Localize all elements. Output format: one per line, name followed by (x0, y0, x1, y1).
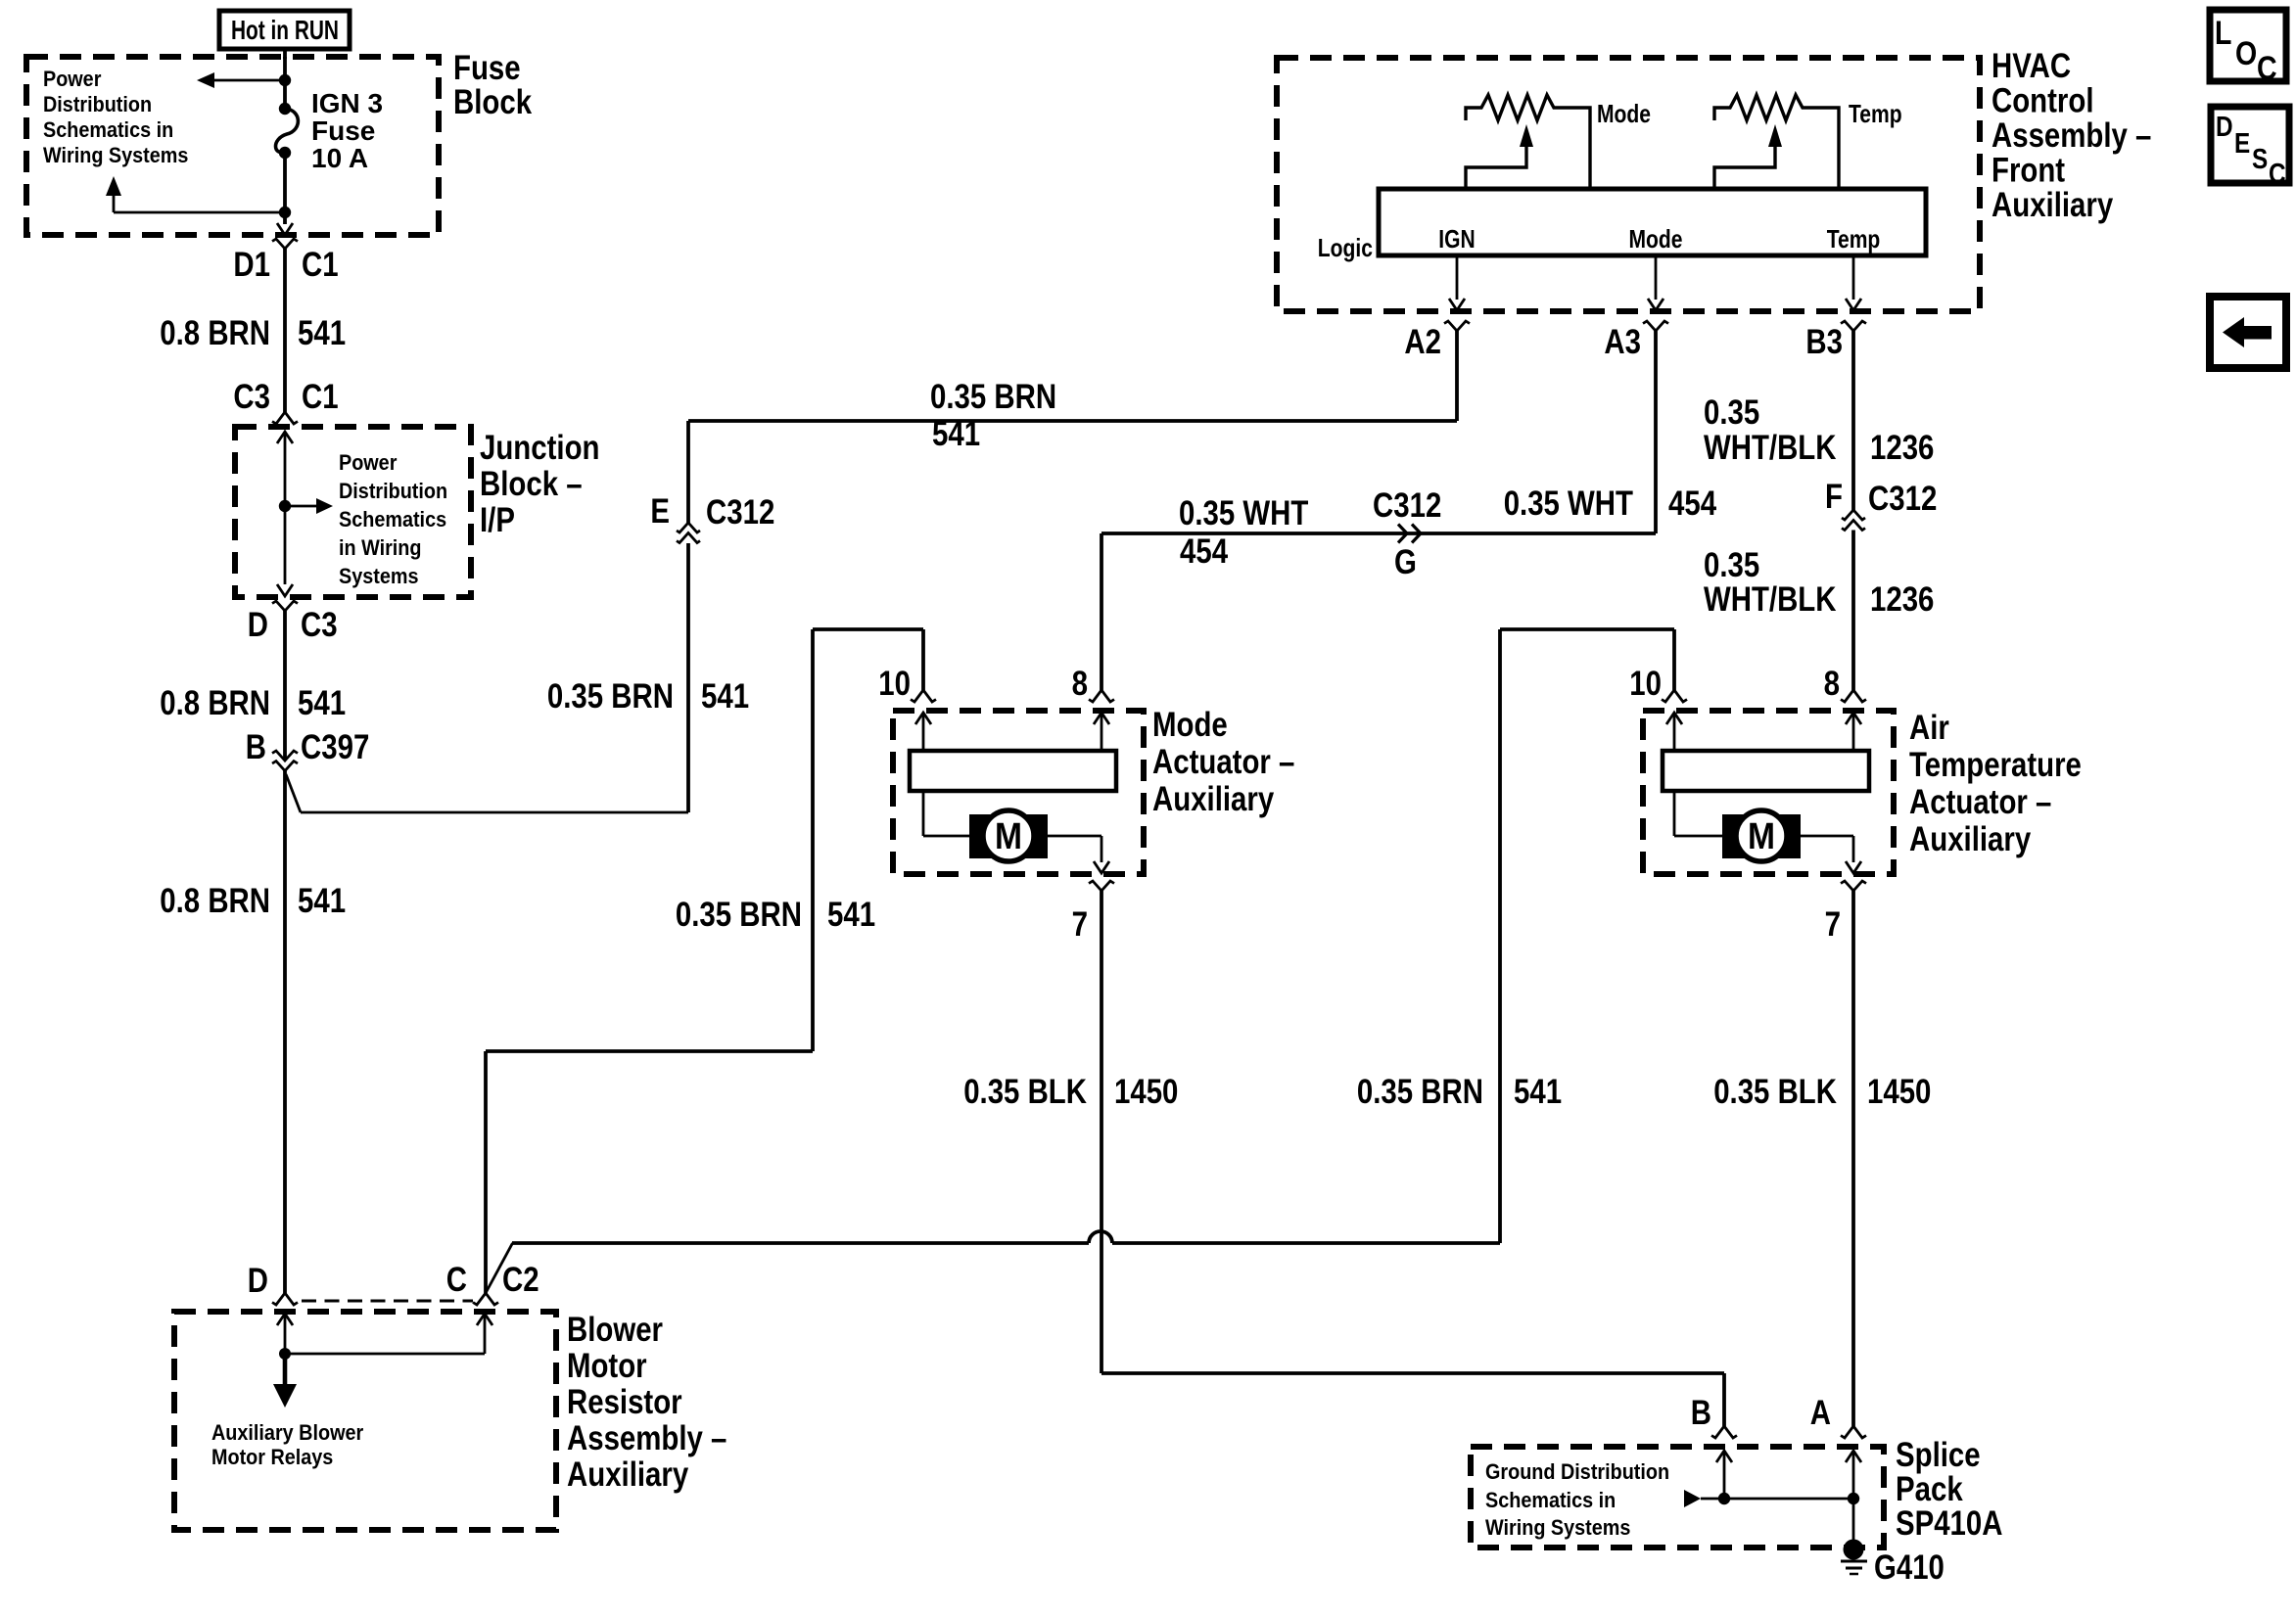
svg-text:G: G (1394, 543, 1417, 581)
svg-text:Auxiliary: Auxiliary (1909, 820, 2032, 858)
svg-text:10: 10 (878, 665, 911, 703)
svg-text:O: O (2235, 35, 2257, 72)
svg-text:1236: 1236 (1870, 580, 1934, 619)
svg-text:Distribution: Distribution (43, 92, 152, 116)
svg-text:B: B (1691, 1394, 1711, 1432)
svg-text:B: B (246, 728, 266, 766)
svg-text:WHT/BLK: WHT/BLK (1704, 429, 1837, 467)
svg-text:A2: A2 (1404, 323, 1441, 361)
svg-text:WHT/BLK: WHT/BLK (1704, 580, 1837, 619)
svg-text:0.8 BRN: 0.8 BRN (160, 882, 270, 920)
svg-text:10: 10 (1629, 665, 1662, 703)
svg-text:Auxiliary: Auxiliary (1991, 186, 2114, 224)
svg-text:Block: Block (453, 83, 533, 121)
svg-text:0.35 BRN: 0.35 BRN (676, 896, 802, 934)
svg-text:541: 541 (298, 684, 346, 722)
svg-text:541: 541 (701, 677, 749, 716)
svg-text:541: 541 (298, 314, 346, 352)
svg-text:C: C (2269, 159, 2286, 190)
svg-text:Auxiliary Blower: Auxiliary Blower (211, 1420, 364, 1445)
svg-text:Splice: Splice (1896, 1436, 1981, 1474)
svg-text:454: 454 (1668, 485, 1717, 523)
svg-text:Wiring Systems: Wiring Systems (43, 143, 188, 167)
svg-text:Mode: Mode (1152, 706, 1228, 744)
svg-text:Fuse: Fuse (453, 49, 521, 87)
svg-text:C2: C2 (502, 1261, 539, 1299)
svg-text:Schematics: Schematics (339, 507, 446, 531)
svg-text:541: 541 (827, 896, 875, 934)
svg-text:Power: Power (339, 450, 398, 475)
svg-text:541: 541 (932, 415, 980, 453)
svg-text:Assembly –: Assembly – (567, 1419, 726, 1457)
svg-text:Schematics in: Schematics in (43, 117, 173, 142)
svg-text:L: L (2215, 15, 2231, 52)
svg-text:C3: C3 (233, 378, 270, 416)
svg-text:B3: B3 (1805, 323, 1843, 361)
svg-text:0.8 BRN: 0.8 BRN (160, 684, 270, 722)
svg-text:Motor: Motor (567, 1347, 647, 1385)
svg-text:0.35: 0.35 (1704, 393, 1759, 432)
svg-text:Power: Power (43, 67, 102, 91)
svg-text:F: F (1825, 478, 1843, 516)
svg-text:1450: 1450 (1114, 1073, 1178, 1111)
svg-text:Resistor: Resistor (567, 1383, 682, 1421)
svg-text:D: D (248, 606, 268, 644)
svg-text:Systems: Systems (339, 564, 419, 588)
svg-text:Logic: Logic (1318, 233, 1373, 262)
svg-text:Blower: Blower (567, 1311, 663, 1349)
svg-text:Front: Front (1991, 152, 2065, 190)
svg-text:1450: 1450 (1867, 1073, 1931, 1111)
svg-text:C1: C1 (302, 246, 339, 284)
svg-text:C312: C312 (1373, 486, 1441, 525)
svg-text:in Wiring: in Wiring (339, 535, 422, 560)
svg-text:Auxiliary: Auxiliary (1152, 780, 1275, 818)
svg-text:C312: C312 (1868, 480, 1937, 518)
svg-text:SP410A: SP410A (1896, 1504, 2003, 1543)
svg-text:Fuse: Fuse (311, 115, 375, 146)
svg-text:Ground Distribution: Ground Distribution (1485, 1459, 1669, 1484)
svg-text:Temp: Temp (1849, 99, 1902, 128)
svg-text:Mode: Mode (1597, 99, 1651, 128)
svg-text:Junction: Junction (480, 429, 600, 467)
svg-text:C: C (446, 1261, 467, 1299)
svg-text:541: 541 (1514, 1073, 1562, 1111)
svg-text:0.35 BRN: 0.35 BRN (1357, 1073, 1483, 1111)
svg-text:D: D (248, 1262, 268, 1300)
svg-text:0.35 BRN: 0.35 BRN (547, 677, 674, 716)
svg-text:A3: A3 (1604, 323, 1641, 361)
svg-text:541: 541 (298, 882, 346, 920)
svg-text:0.35: 0.35 (1704, 546, 1759, 584)
svg-text:E: E (650, 492, 670, 531)
svg-text:Assembly –: Assembly – (1991, 116, 2151, 155)
svg-text:0.35 BLK: 0.35 BLK (1713, 1073, 1837, 1111)
svg-text:7: 7 (1072, 905, 1088, 944)
svg-text:0.35 BLK: 0.35 BLK (963, 1073, 1087, 1111)
svg-text:G410: G410 (1874, 1548, 1945, 1587)
svg-text:7: 7 (1825, 905, 1841, 944)
svg-text:Wiring Systems: Wiring Systems (1485, 1515, 1630, 1540)
svg-text:M: M (1748, 816, 1775, 857)
svg-text:Distribution: Distribution (339, 479, 447, 503)
svg-text:454: 454 (1180, 532, 1229, 571)
svg-text:D1: D1 (233, 246, 270, 284)
svg-text:E: E (2234, 128, 2250, 160)
svg-text:C1: C1 (302, 378, 339, 416)
svg-text:IGN: IGN (1438, 224, 1475, 254)
svg-text:8: 8 (1072, 665, 1088, 703)
svg-text:Block –: Block – (480, 465, 583, 503)
svg-text:HVAC: HVAC (1991, 47, 2071, 85)
svg-text:Temperature: Temperature (1909, 746, 2082, 784)
svg-text:10 A: 10 A (311, 143, 368, 173)
svg-text:A: A (1810, 1394, 1831, 1432)
svg-text:M: M (995, 816, 1022, 857)
svg-text:C312: C312 (706, 493, 774, 531)
svg-text:Motor Relays: Motor Relays (211, 1445, 333, 1469)
svg-text:0.35 BRN: 0.35 BRN (930, 378, 1056, 416)
svg-text:Air: Air (1909, 709, 1949, 747)
svg-text:Schematics in: Schematics in (1485, 1488, 1616, 1512)
svg-text:Auxiliary: Auxiliary (567, 1455, 689, 1494)
svg-text:I/P: I/P (480, 501, 515, 539)
svg-text:C3: C3 (301, 606, 338, 644)
svg-text:Mode: Mode (1629, 224, 1683, 254)
svg-text:0.35 WHT: 0.35 WHT (1179, 494, 1308, 532)
svg-text:Temp: Temp (1827, 224, 1881, 254)
svg-text:C: C (2257, 50, 2277, 87)
svg-text:0.35 WHT: 0.35 WHT (1504, 485, 1633, 523)
svg-text:Pack: Pack (1896, 1470, 1963, 1508)
svg-text:S: S (2252, 144, 2268, 175)
svg-text:0.8 BRN: 0.8 BRN (160, 314, 270, 352)
svg-text:Actuator –: Actuator – (1909, 783, 2051, 821)
svg-text:1236: 1236 (1870, 429, 1934, 467)
svg-text:Control: Control (1991, 82, 2094, 120)
svg-text:C397: C397 (301, 728, 369, 766)
svg-text:IGN 3: IGN 3 (311, 88, 383, 118)
svg-text:8: 8 (1824, 665, 1840, 703)
svg-text:D: D (2216, 112, 2233, 143)
svg-text:Actuator –: Actuator – (1152, 743, 1294, 781)
svg-text:Hot in RUN: Hot in RUN (231, 15, 339, 45)
